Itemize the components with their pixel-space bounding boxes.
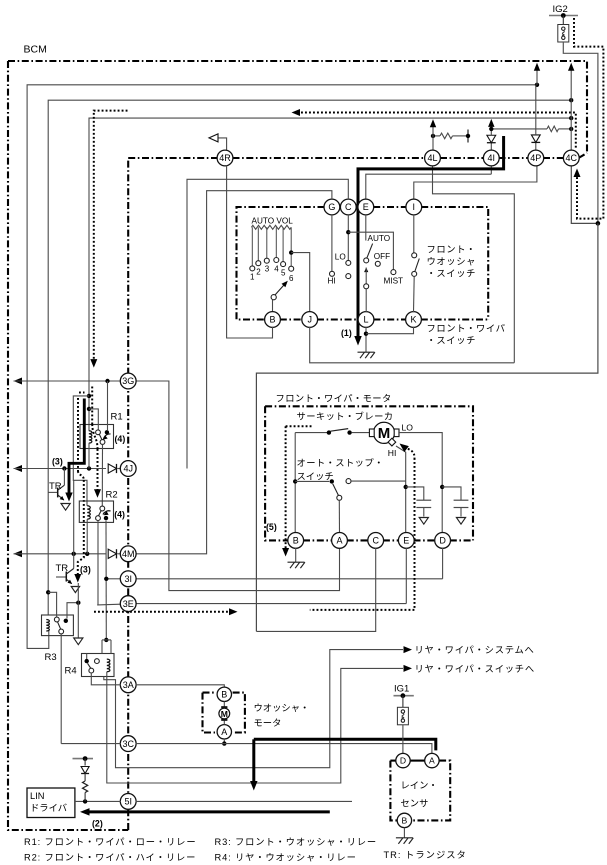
svg-text:5: 5 <box>281 269 286 278</box>
svg-text:LO: LO <box>335 253 346 262</box>
svg-text:ウオッシャ・: ウオッシャ・ <box>254 703 310 713</box>
svg-text:R1: R1 <box>111 412 123 423</box>
svg-text:フロント・ワイパ: フロント・ワイパ <box>427 324 506 334</box>
svg-text:3G: 3G <box>122 376 134 386</box>
svg-text:4R: 4R <box>219 153 231 163</box>
svg-text:A: A <box>336 536 342 546</box>
svg-text:ドライバ: ドライバ <box>30 803 67 813</box>
svg-text:TR: TR <box>49 481 62 492</box>
svg-text:モータ: モータ <box>254 718 282 728</box>
svg-text:1: 1 <box>250 273 255 282</box>
svg-text:J: J <box>307 315 312 325</box>
svg-text:B: B <box>293 536 299 546</box>
svg-text:レイン・: レイン・ <box>401 781 438 791</box>
svg-text:A: A <box>429 756 435 766</box>
svg-text:・スイッチ: ・スイッチ <box>427 269 477 279</box>
svg-text:B: B <box>269 315 275 325</box>
svg-text:L: L <box>363 315 368 325</box>
svg-text:B: B <box>221 690 227 700</box>
svg-text:HI: HI <box>388 448 397 458</box>
svg-text:(3): (3) <box>52 457 63 467</box>
svg-text:(2): (2) <box>92 819 103 829</box>
svg-text:フロント・ワイパ・モータ: フロント・ワイパ・モータ <box>276 394 392 404</box>
svg-text:R3: R3 <box>45 652 57 663</box>
svg-text:・スイッチ: ・スイッチ <box>427 336 477 346</box>
svg-text:BCM: BCM <box>24 44 47 56</box>
svg-text:TR: トランジスタ: TR: トランジスタ <box>384 850 467 860</box>
svg-text:R4: R4 <box>65 666 77 677</box>
svg-text:MIST: MIST <box>384 277 404 286</box>
svg-text:4J: 4J <box>123 464 133 474</box>
svg-text:K: K <box>410 315 416 325</box>
svg-text:C: C <box>372 536 379 546</box>
svg-text:リヤ・ワイパ・システムへ: リヤ・ワイパ・システムへ <box>415 645 535 655</box>
svg-text:E: E <box>363 202 369 212</box>
svg-text:AUTO VOL: AUTO VOL <box>252 217 294 226</box>
svg-text:3I: 3I <box>124 574 132 584</box>
svg-text:OFF: OFF <box>374 252 390 261</box>
svg-text:LO: LO <box>402 423 414 433</box>
svg-text:スイッチ: スイッチ <box>297 472 334 482</box>
svg-text:6: 6 <box>289 274 294 283</box>
svg-text:4L: 4L <box>427 153 437 163</box>
svg-text:I: I <box>413 202 416 212</box>
svg-text:(4): (4) <box>114 510 125 520</box>
svg-text:フロント・: フロント・ <box>427 245 477 255</box>
svg-text:LIN: LIN <box>30 791 44 801</box>
svg-text:5I: 5I <box>124 797 132 807</box>
svg-text:D: D <box>400 756 406 766</box>
svg-text:3: 3 <box>265 265 270 274</box>
svg-text:(3): (3) <box>80 565 91 575</box>
svg-text:ウオッシャ: ウオッシャ <box>427 257 477 267</box>
svg-text:(1): (1) <box>341 328 352 338</box>
svg-text:センサ: センサ <box>401 799 429 809</box>
svg-text:4M: 4M <box>122 549 135 559</box>
svg-text:B: B <box>402 815 408 825</box>
svg-text:3A: 3A <box>123 680 134 690</box>
svg-text:オート・ストップ・: オート・ストップ・ <box>297 458 384 468</box>
svg-text:2: 2 <box>256 268 261 277</box>
svg-text:R4: リヤ・ウオッシャ・リレー: R4: リヤ・ウオッシャ・リレー <box>215 853 357 863</box>
svg-text:IG2: IG2 <box>553 4 568 15</box>
svg-text:C: C <box>345 202 352 212</box>
svg-text:サーキット・ブレーカ: サーキット・ブレーカ <box>297 411 394 422</box>
svg-text:リヤ・ワイパ・スイッチへ: リヤ・ワイパ・スイッチへ <box>415 664 535 674</box>
svg-text:R3: フロント・ウオッシャ・リレー: R3: フロント・ウオッシャ・リレー <box>215 837 378 847</box>
svg-text:3C: 3C <box>122 739 134 749</box>
svg-text:(4): (4) <box>115 434 126 444</box>
svg-text:HI: HI <box>328 277 336 286</box>
svg-text:M: M <box>221 709 228 719</box>
svg-text:R2: R2 <box>106 490 118 501</box>
svg-text:R1: フロント・ワイパ・ロー・リレー: R1: フロント・ワイパ・ロー・リレー <box>24 837 196 847</box>
svg-text:E: E <box>403 536 409 546</box>
svg-text:4I: 4I <box>488 153 496 163</box>
svg-text:M: M <box>378 425 391 442</box>
svg-text:R2: フロント・ワイパ・ハイ・リレー: R2: フロント・ワイパ・ハイ・リレー <box>24 853 196 863</box>
svg-text:G: G <box>328 202 335 212</box>
svg-text:IG1: IG1 <box>394 684 409 695</box>
svg-text:4: 4 <box>274 265 279 274</box>
svg-text:(5): (5) <box>266 522 277 532</box>
svg-text:3E: 3E <box>123 599 134 609</box>
svg-text:4P: 4P <box>530 153 541 163</box>
svg-text:AUTO: AUTO <box>368 234 391 243</box>
svg-text:A: A <box>221 727 227 737</box>
svg-text:4C: 4C <box>566 153 578 163</box>
svg-text:D: D <box>439 536 446 546</box>
